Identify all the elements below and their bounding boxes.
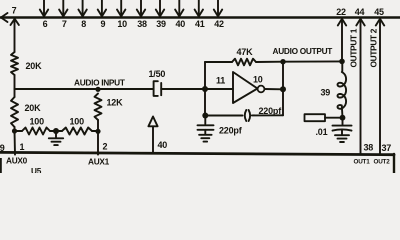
label AUDIO OUTPUT: [273, 46, 333, 56]
resistor R6 47K: [232, 59, 256, 66]
resistor R1 value 20K: [26, 61, 43, 71]
svg-text:220pf: 220pf: [219, 126, 243, 136]
capacitor C4 .01 bottom plate: [333, 129, 352, 130]
label OUT2: [374, 159, 391, 166]
capacitor C3 value 220pf: [259, 106, 283, 116]
svg-text:AUDIO OUTPUT: AUDIO OUTPUT: [273, 46, 333, 56]
svg-text:6: 6: [43, 19, 48, 29]
pin 42 wire from top edge: [217, 0, 219, 16]
wire left rail upper: [14, 18, 16, 52]
label AUX1: [88, 157, 110, 167]
pin 41 wire from top edge: [198, 0, 200, 16]
wire R4 to node 2: [92, 130, 98, 132]
svg-text:20K: 20K: [26, 61, 43, 71]
svg-text:AUX1: AUX1: [88, 157, 110, 167]
wire C2 to ground: [204, 130, 206, 134]
label OUTPUT 1 rotated: [349, 28, 359, 67]
capacitor C2 220pf top plate: [198, 124, 214, 126]
wire node down to C2: [204, 116, 206, 125]
pin 41 down-arrowhead: [195, 10, 203, 17]
pin 38 wire from top edge: [140, 0, 142, 16]
pin 40 down-arrowhead: [175, 10, 183, 17]
wire left rail lower to bottom bus: [14, 131, 17, 155]
wire output 2 line: [379, 19, 381, 154]
svg-text:47K: 47K: [237, 47, 254, 57]
resistor R1 20K: [11, 52, 18, 75]
svg-text:9: 9: [100, 19, 105, 29]
op-amp U1 output bubble: [258, 86, 265, 93]
wire audio input line right segment: [161, 88, 233, 90]
pin 19 label partially cut: [0, 143, 5, 153]
pin 40 label: [175, 19, 185, 29]
capacitor C3 220pf right plate: [249, 110, 251, 121]
pin 40 wire to bottom bus: [152, 126, 154, 153]
wire inverter output: [264, 88, 283, 90]
svg-text:1/50: 1/50: [149, 69, 166, 79]
wire bottom bus right corner down: [393, 154, 395, 173]
pin 39 label: [156, 19, 166, 29]
pin 38 label: [364, 143, 374, 153]
resistor R4 100: [62, 128, 92, 135]
capacitor C2 value 220pf: [219, 126, 243, 136]
node junction feedback / output: [280, 59, 285, 64]
wire bottom bus: [0, 152, 394, 154]
op-amp U1 pin 11 label: [216, 76, 225, 86]
node junction output line: [280, 86, 286, 92]
wire feedback top left segment: [205, 61, 232, 63]
wire left rail to node: [14, 127, 16, 131]
pin 45 label: [374, 7, 384, 17]
wire rail to R3: [15, 130, 23, 132]
svg-text:7: 7: [62, 19, 67, 29]
node junction feedback bottom: [202, 113, 208, 119]
svg-text:AUX0: AUX0: [6, 156, 28, 166]
svg-text:37: 37: [382, 143, 392, 153]
svg-text:20K: 20K: [25, 103, 42, 113]
ground below C4: [335, 135, 349, 142]
wire node 2 down to bottom bus: [97, 131, 99, 155]
svg-text:45: 45: [374, 7, 384, 17]
resistor R2 20K: [11, 97, 18, 127]
pin 10 down-arrowhead: [117, 10, 125, 17]
pin 22 up-arrowhead into top bus: [338, 19, 346, 26]
svg-text:38: 38: [137, 19, 147, 29]
label AUX0: [6, 156, 28, 166]
pin 7 down-arrowhead: [59, 10, 67, 17]
wire coil node down to C4: [342, 118, 344, 125]
svg-text:10: 10: [117, 19, 127, 29]
pin 9 label: [100, 19, 105, 29]
svg-text:40: 40: [158, 140, 168, 150]
wire left rail between resistors: [14, 75, 16, 97]
svg-text:.01: .01: [316, 127, 328, 137]
wire top supply bus: [0, 16, 400, 18]
svg-text:100: 100: [70, 117, 85, 127]
pin 45 up-arrowhead into top bus: [376, 19, 384, 26]
capacitor C4 .01 top plate: [333, 125, 352, 127]
wire audio output segment: [283, 60, 342, 62]
svg-text:220pf: 220pf: [259, 106, 283, 116]
svg-text:7: 7: [12, 6, 17, 16]
wire pin 22 line down from bus: [341, 19, 343, 61]
pin 6 wire from top edge: [43, 0, 45, 16]
edge artifact bottom left: [0, 158, 2, 173]
node junction left rail / 100 ohm row: [12, 128, 17, 133]
pin 39 down-arrowhead: [156, 10, 164, 17]
op-amp U1 pin 10 label: [253, 75, 263, 85]
capacitor C1 1/50 right plate: [160, 83, 162, 95]
svg-text:OUTPUT 1: OUTPUT 1: [349, 28, 359, 67]
label OUT1: [354, 159, 371, 166]
capacitor C4 value .01: [316, 127, 328, 137]
ground below C2: [199, 135, 212, 142]
svg-text:11: 11: [216, 76, 225, 86]
svg-text:42: 42: [214, 19, 224, 29]
wire audio input line left segment: [15, 88, 154, 90]
pin 38 down-arrowhead: [137, 10, 145, 17]
svg-text:19: 19: [0, 143, 5, 153]
svg-text:12K: 12K: [107, 98, 124, 108]
wire output 1 line: [360, 19, 362, 154]
svg-text:U5: U5: [31, 166, 42, 173]
ground center tap: [49, 138, 63, 145]
svg-text:8: 8: [81, 19, 86, 29]
node junction 12K / 100 ohm row: [95, 129, 100, 134]
wire C3 to output vertical: [252, 114, 283, 116]
pin 8 wire from top edge: [82, 0, 84, 16]
wire 47K to output node: [256, 61, 283, 63]
pin 7 label: [62, 19, 67, 29]
label OUTPUT 2 rotated: [369, 28, 379, 67]
node junction audio output / pin 22 line: [339, 59, 345, 65]
pin 1 label: [20, 142, 25, 152]
capacitor C1 1/50 left plate: [154, 81, 158, 96]
svg-text:40: 40: [175, 19, 185, 29]
svg-text:38: 38: [364, 143, 374, 153]
pin 2 label: [103, 142, 108, 152]
resistor R3 value 100: [30, 117, 45, 127]
pin 22 label: [336, 7, 346, 17]
wire feedback bottom left segment: [205, 115, 243, 117]
pin 39 wire from top edge: [159, 0, 161, 16]
inductor L1 value 39: [321, 88, 331, 98]
pin 44 label: [355, 7, 365, 17]
pin 40 label: [158, 140, 168, 150]
pin 44 up-arrowhead into top bus: [356, 19, 364, 26]
wire center tap to ground: [55, 131, 57, 138]
capacitor C3 220pf left plate: [245, 110, 247, 121]
pin 38 label: [137, 19, 147, 29]
node junction coil bottom: [340, 115, 346, 121]
pin 7 wire from top edge: [62, 0, 64, 16]
resistor R2 value 20K: [25, 103, 42, 113]
wire R3 to center tap: [50, 130, 62, 132]
wire box to coil node: [325, 117, 343, 119]
pin 37 label: [382, 143, 392, 153]
pin 41 label: [195, 19, 205, 29]
pin 7 up-arrow into top bus: [11, 19, 19, 25]
capacitor C1 value 1/50: [149, 69, 166, 79]
svg-text:2: 2: [103, 142, 108, 152]
svg-text:1: 1: [20, 142, 25, 152]
svg-text:44: 44: [355, 7, 365, 17]
node junction audio line / 12K: [95, 87, 100, 92]
pin 10 label: [117, 19, 127, 29]
pin 10 wire from top edge: [120, 0, 122, 16]
label AUDIO INPUT: [74, 78, 125, 88]
pin 42 label: [214, 19, 224, 29]
op-amp U1 inverter triangle: [233, 72, 258, 103]
svg-text:OUT1: OUT1: [354, 159, 371, 166]
svg-text:OUTPUT 2: OUTPUT 2: [369, 28, 379, 67]
node junction center tap: [53, 128, 59, 134]
node junction inverter input: [202, 86, 208, 92]
pin 40 open triangle arrowhead: [148, 117, 157, 127]
pin 42 down-arrowhead: [214, 10, 222, 17]
svg-text:39: 39: [321, 88, 331, 98]
svg-text:39: 39: [156, 19, 166, 29]
svg-text:41: 41: [195, 19, 205, 29]
resistor R5 value 12K: [107, 98, 124, 108]
component box stub: [305, 114, 326, 121]
wire C4 to ground: [341, 130, 343, 134]
arrowhead left end of top bus: [1, 13, 8, 22]
pin 9 down-arrowhead: [98, 10, 106, 17]
svg-text:OUT2: OUT2: [374, 159, 391, 166]
svg-text:22: 22: [336, 7, 346, 17]
resistor R4 value 100: [70, 117, 85, 127]
wire feedback left vertical: [204, 62, 206, 116]
pin 7 label: [12, 6, 17, 16]
pin 8 label: [81, 19, 86, 29]
resistor R5 12K: [95, 94, 102, 121]
label U5 cut at bottom edge: [31, 166, 42, 176]
inductor L1 39 coil: [338, 61, 347, 117]
wire output vertical: [282, 62, 284, 116]
resistor R6 value 47K: [237, 47, 254, 57]
capacitor C2 220pf bottom plate: [198, 129, 214, 131]
resistor R3 100: [22, 128, 50, 135]
pin 8 down-arrowhead: [78, 10, 86, 17]
svg-text:AUDIO INPUT: AUDIO INPUT: [74, 78, 125, 88]
pin 40 wire from top edge: [178, 0, 180, 16]
pin 6 label: [43, 19, 48, 29]
pin 9 wire from top edge: [101, 0, 103, 16]
svg-text:100: 100: [30, 117, 45, 127]
svg-text:10: 10: [253, 75, 263, 85]
wire 12K to node: [97, 120, 99, 131]
pin 6 down-arrowhead: [40, 10, 48, 17]
